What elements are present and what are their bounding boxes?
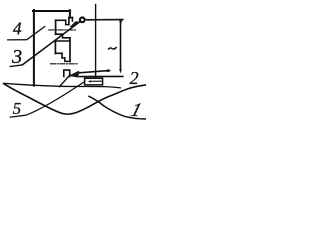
line A end blob <box>107 69 109 72</box>
bracket plate 4 right edge upper <box>69 10 71 18</box>
upper bar sloped line <box>80 71 110 73</box>
centerline lower <box>51 63 79 65</box>
table top line <box>80 75 123 77</box>
force arrow top blob <box>119 21 122 25</box>
bracket plate 4 top edge <box>33 10 70 12</box>
lever leader 3 line <box>22 22 80 65</box>
svg-text:5: 5 <box>13 99 22 118</box>
lower hook left wall <box>54 41 56 54</box>
short leader to door <box>59 76 69 87</box>
slider box 5 <box>85 78 103 85</box>
upper hook flag top <box>69 17 73 19</box>
svg-text:3: 3 <box>11 46 22 68</box>
upper hook flag right <box>71 18 73 22</box>
upper hook bottom edge <box>56 33 63 35</box>
lower hook step one <box>62 53 65 58</box>
lower door shape <box>64 70 70 76</box>
knob circle <box>80 17 85 22</box>
tilde mark <box>109 48 117 50</box>
shallow curve upper board <box>4 83 121 88</box>
big left arrowhead <box>68 71 79 78</box>
leader 3 underline <box>10 65 22 67</box>
top horizontal rail <box>87 19 123 21</box>
upper hook step <box>63 34 71 38</box>
upper hook flag left <box>68 18 70 25</box>
upper hook left wall <box>55 20 57 34</box>
upper hook notch <box>66 20 69 24</box>
cam wedge at flag <box>70 21 79 28</box>
right wall between hooks <box>69 38 71 62</box>
lower hook pocket bottom <box>55 52 62 54</box>
leader 4 underline <box>8 27 45 40</box>
curved workpiece 1 <box>89 96 146 119</box>
big curved workpiece 2 <box>4 84 146 115</box>
lower hook step two <box>65 58 70 61</box>
right vertical force line <box>120 20 122 69</box>
centerline upper <box>49 29 76 31</box>
bracket plate 4 left edge <box>33 10 35 86</box>
upper hook top edge <box>56 19 66 21</box>
force arrowhead down <box>119 69 122 74</box>
svg-text:2: 2 <box>130 68 139 88</box>
svg-text:4: 4 <box>13 19 22 39</box>
arrow line inside box <box>91 80 102 82</box>
lower hook top edge <box>55 40 70 42</box>
small left arrowhead in box <box>88 80 91 82</box>
long vertical rod <box>95 5 97 78</box>
leader 5 line <box>10 82 84 118</box>
